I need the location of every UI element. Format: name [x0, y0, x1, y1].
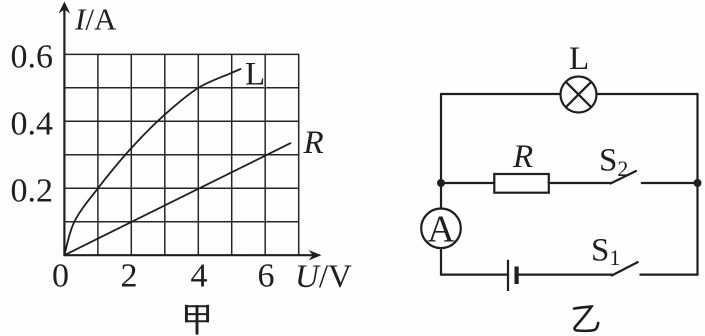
svg-text:2: 2	[121, 258, 138, 295]
battery short plate	[514, 267, 518, 285]
junction node left	[437, 179, 445, 187]
x-axis U	[64, 254, 313, 256]
svg-text:4: 4	[191, 258, 208, 295]
svg-text:6: 6	[258, 258, 275, 295]
svg-text:0.4: 0.4	[11, 106, 54, 143]
caption jia (甲) drawn as strokes	[185, 305, 209, 335]
wire battery to switch S1	[517, 274, 612, 276]
caption yi (乙) drawn as strokes	[574, 307, 598, 331]
svg-text:L: L	[245, 56, 265, 92]
svg-text:U/V: U/V	[295, 259, 352, 295]
svg-text:L: L	[569, 41, 589, 77]
left vertical wire (top to junction to ammeter)	[440, 94, 442, 209]
battery long plate	[507, 260, 509, 291]
svg-text:R: R	[303, 125, 324, 161]
svg-text:0.2: 0.2	[11, 173, 54, 210]
ammeter A	[421, 209, 461, 249]
svg-text:0: 0	[52, 258, 69, 295]
switch S2 right contact wire	[642, 182, 698, 184]
lamp L (circle with cross)	[561, 77, 597, 113]
switch S1 blade	[612, 262, 638, 275]
y-axis arrowhead	[59, 2, 71, 14]
curve L (lamp characteristic)	[64, 69, 240, 255]
y-axis I	[63, 8, 65, 255]
svg-text:I/A: I/A	[74, 2, 117, 37]
resistor R box	[494, 174, 549, 193]
switch S2 blade	[611, 171, 637, 184]
x-axis arrowhead	[309, 250, 322, 260]
wire ammeter to bottom corner	[440, 248, 442, 275]
line R (resistor characteristic)	[64, 143, 290, 255]
wire resistor to switch S2	[549, 182, 611, 184]
switch S1 right contact wire	[640, 274, 697, 276]
svg-text:0.6: 0.6	[11, 39, 54, 76]
right vertical wire	[696, 94, 698, 275]
graph grid	[64, 54, 298, 255]
middle branch wire left	[441, 182, 494, 184]
junction node right	[694, 179, 702, 187]
svg-text:R: R	[512, 139, 533, 175]
circuit: top wire right segment	[597, 93, 698, 95]
circuit: top wire left segment	[441, 93, 561, 95]
svg-text:A: A	[427, 209, 455, 251]
bottom wire to battery	[441, 274, 508, 276]
